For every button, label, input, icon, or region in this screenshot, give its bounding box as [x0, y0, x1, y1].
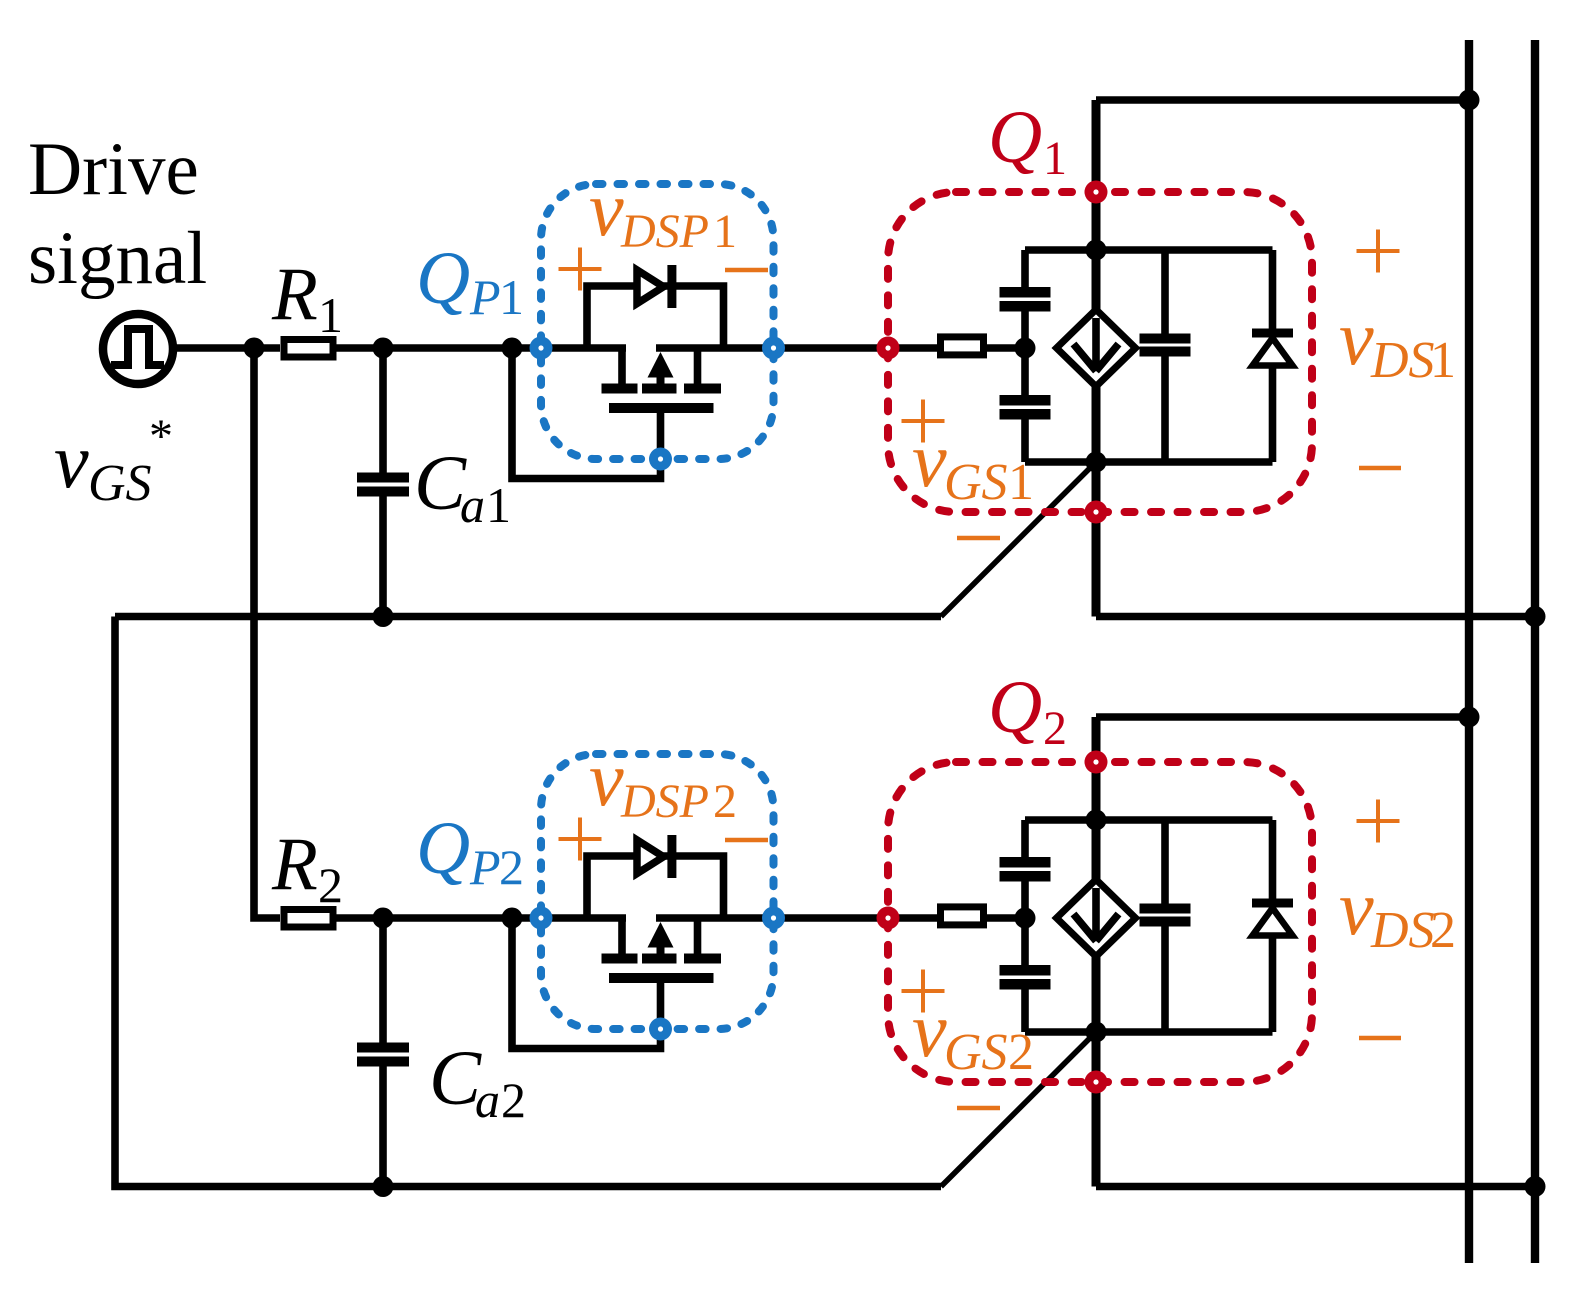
svg-text:2: 2 [713, 775, 737, 828]
svg-text:a: a [460, 477, 485, 533]
svg-text:v: v [1339, 864, 1374, 951]
svg-text:*: * [149, 410, 173, 463]
svg-text:1: 1 [486, 477, 511, 533]
svg-text:R: R [271, 253, 318, 336]
svg-text:2: 2 [499, 839, 524, 895]
svg-text:1: 1 [1008, 454, 1034, 511]
svg-text:Drive: Drive [28, 128, 199, 211]
svg-text:a: a [475, 1072, 500, 1128]
svg-text:2: 2 [501, 1072, 526, 1128]
svg-text:1: 1 [1430, 332, 1456, 389]
svg-text:1: 1 [499, 269, 524, 325]
svg-text:Q: Q [416, 807, 470, 890]
svg-text:v: v [1339, 294, 1374, 381]
svg-text:DSP: DSP [620, 775, 709, 828]
svg-text:2: 2 [318, 857, 343, 913]
svg-text:signal: signal [28, 217, 207, 300]
svg-text:GS: GS [88, 455, 152, 512]
svg-text:P: P [469, 839, 501, 895]
svg-text:2: 2 [1043, 702, 1067, 755]
svg-text:1: 1 [1043, 132, 1067, 185]
svg-text:v: v [54, 417, 89, 504]
svg-text:Q: Q [988, 96, 1042, 179]
svg-text:GS: GS [944, 454, 1008, 511]
svg-text:1: 1 [318, 287, 343, 343]
svg-text:DS: DS [1370, 332, 1435, 389]
svg-text:v: v [589, 735, 624, 822]
svg-text:Q: Q [988, 666, 1042, 749]
svg-text:DS: DS [1370, 902, 1435, 959]
svg-text:R: R [271, 823, 318, 906]
svg-text:v: v [912, 416, 947, 503]
svg-text:2: 2 [1430, 902, 1456, 959]
svg-text:Q: Q [416, 237, 470, 320]
svg-text:1: 1 [713, 205, 737, 258]
svg-text:v: v [912, 986, 947, 1073]
svg-text:2: 2 [1008, 1024, 1034, 1081]
svg-text:P: P [469, 269, 501, 325]
svg-text:DSP: DSP [620, 205, 709, 258]
svg-text:GS: GS [944, 1024, 1008, 1081]
svg-text:v: v [589, 165, 624, 252]
